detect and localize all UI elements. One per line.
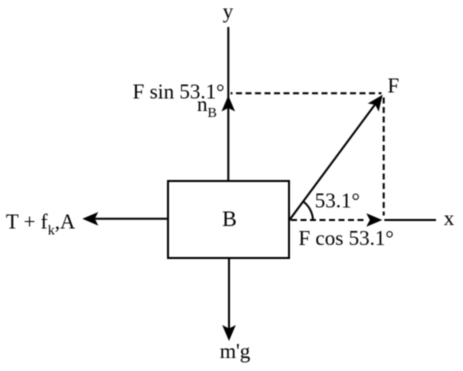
svg-text:m'g: m'g [220,339,251,363]
svg-text:y: y [223,0,234,23]
svg-text:F sin 53.1°: F sin 53.1° [133,79,225,103]
svg-text:53.1°: 53.1° [315,189,360,213]
svg-text:F cos 53.1°: F cos 53.1° [299,226,394,250]
svg-text:F: F [388,73,400,97]
svg-text:x: x [444,206,455,230]
svg-text:B: B [222,206,237,231]
